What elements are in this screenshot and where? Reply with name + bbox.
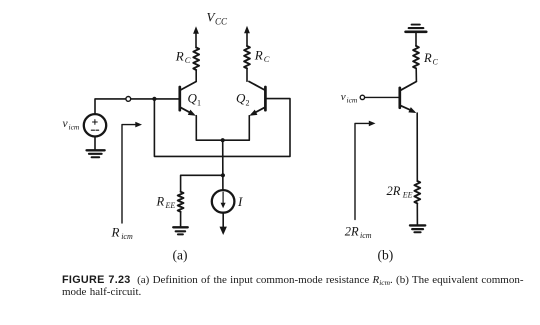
svg-text:CC: CC — [215, 17, 228, 27]
transistor of half-circuit — [400, 82, 417, 114]
wire Q2 emitter to common node — [223, 116, 250, 141]
svg-text:R: R — [175, 49, 184, 64]
label 2REE — [387, 184, 413, 200]
label RC left — [175, 49, 191, 66]
resistor RC left (value RC) — [193, 48, 199, 71]
wire base loop down-across-up to Q2 base — [154, 99, 290, 157]
wire Q1 emitter to common node — [196, 116, 222, 141]
svg-text:icm: icm — [69, 123, 80, 132]
svg-text:I: I — [237, 194, 243, 209]
current source I — [212, 190, 235, 213]
resistor RC of half-circuit — [413, 46, 419, 68]
svg-text:(a): (a) — [173, 248, 188, 263]
caption figure 7.23 — [62, 275, 524, 299]
wire open terminal to Q1 base — [131, 98, 179, 100]
label RC right — [254, 48, 270, 65]
svg-text:R: R — [423, 51, 432, 65]
svg-text:1: 1 — [197, 99, 201, 108]
svg-text:2R: 2R — [345, 225, 359, 239]
wire source top to base rail — [95, 99, 126, 114]
label 2Ricm — [345, 225, 372, 241]
wire common emitter tail down — [222, 140, 224, 190]
svg-text:icm: icm — [360, 231, 372, 240]
label REE — [156, 195, 176, 211]
label (b) — [378, 248, 394, 263]
svg-text:(b): (b) — [378, 248, 394, 263]
arrow Ricm measurement — [122, 125, 137, 223]
node emitters junction dot — [221, 138, 225, 142]
label Ricm — [111, 225, 133, 242]
resistor RC right (value RC) — [244, 46, 250, 68]
label Q1 — [188, 91, 202, 108]
svg-text:C: C — [264, 54, 270, 64]
wire VCC supply arrow right — [246, 31, 248, 47]
node VCC label — [207, 10, 229, 27]
label vicm (b) — [341, 91, 358, 104]
svg-text:R: R — [111, 225, 120, 240]
node tail junction dot — [221, 173, 225, 177]
svg-text:Q: Q — [188, 91, 198, 106]
node input open terminal — [126, 97, 131, 102]
svg-text:EE: EE — [402, 191, 413, 200]
svg-text:v: v — [341, 91, 346, 103]
svg-text:Q: Q — [236, 91, 246, 106]
voltage source vicm — [84, 114, 106, 136]
arrow 2Ricm measurement — [355, 123, 370, 219]
svg-text:R: R — [156, 195, 165, 209]
wire ground to RC (b) — [415, 33, 417, 46]
node base junction dot — [152, 97, 156, 101]
label RC (b) — [423, 51, 439, 67]
ground below 2REE — [416, 203, 418, 225]
ground below source — [94, 137, 96, 150]
wire RC left bottom lead — [195, 70, 197, 81]
wire emitter down to 2REE — [416, 113, 418, 181]
resistor 2REE — [414, 181, 420, 203]
node input open terminal (b) — [360, 95, 364, 99]
svg-text:C: C — [433, 58, 439, 67]
svg-text:icm: icm — [121, 232, 133, 241]
resistor REE — [178, 192, 184, 212]
ground top of half-circuit (b) — [406, 25, 427, 32]
svg-text:2: 2 — [246, 99, 250, 108]
svg-text:R: R — [254, 48, 263, 63]
label Q2 — [236, 91, 250, 108]
transistor Q2 — [249, 82, 265, 116]
wire RC right bottom lead — [246, 68, 248, 81]
label I — [237, 194, 243, 209]
wire tail to REE — [181, 175, 223, 192]
wire input to base (b) — [365, 96, 399, 98]
wire VCC supply arrow left — [195, 31, 197, 48]
label vicm — [63, 118, 80, 132]
ground below REE — [180, 212, 182, 227]
wire RC bottom lead (b) — [415, 68, 417, 81]
svg-text:2R: 2R — [387, 184, 401, 198]
svg-text:EE: EE — [165, 201, 176, 210]
svg-text:icm: icm — [347, 95, 358, 104]
label (a) — [173, 248, 188, 263]
wire current source to negative supply arrow — [222, 213, 224, 228]
svg-text:C: C — [185, 55, 191, 65]
transistor Q1 — [180, 82, 196, 116]
